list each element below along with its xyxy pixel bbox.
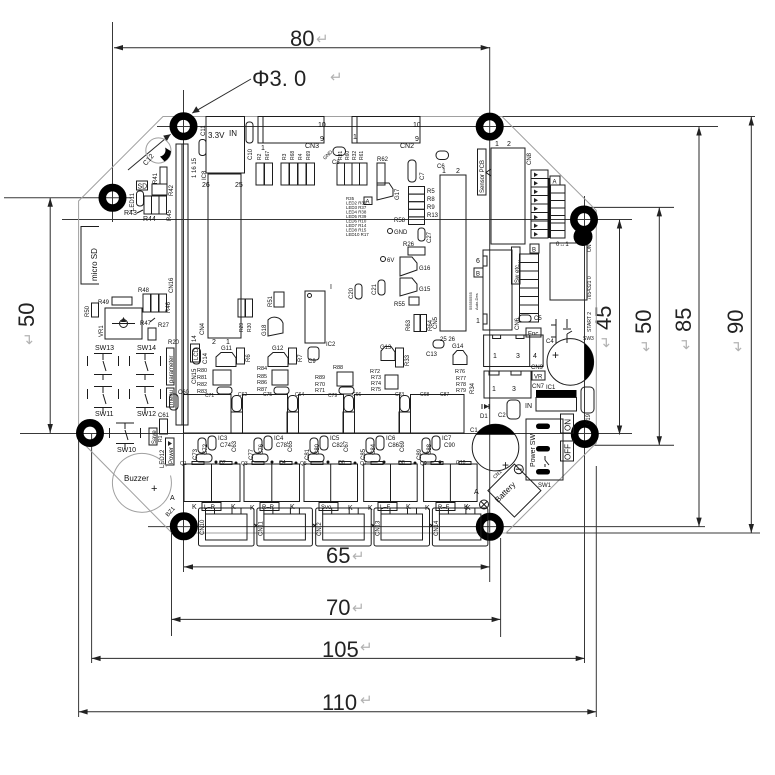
servo connector CN12 bbox=[316, 503, 372, 547]
node A boxed bbox=[364, 197, 372, 206]
servo connector CN13 bbox=[368, 503, 430, 547]
svg-text:↵: ↵ bbox=[360, 692, 373, 709]
svg-text:R67: R67 bbox=[265, 151, 271, 160]
svg-text:K: K bbox=[425, 505, 430, 512]
trimmer VR boxed bbox=[532, 371, 545, 381]
svg-text:C61: C61 bbox=[158, 413, 170, 419]
svg-text:IC7: IC7 bbox=[442, 436, 452, 442]
node A boxed right bbox=[550, 176, 560, 186]
svg-text:Buzzer: Buzzer bbox=[124, 474, 149, 483]
svg-text:R13: R13 bbox=[427, 213, 439, 219]
svg-text:VR1: VR1 bbox=[99, 325, 105, 337]
svg-text:C78: C78 bbox=[276, 443, 288, 449]
svg-text:R62: R62 bbox=[377, 157, 389, 163]
construction line through bottom holes bbox=[148, 526, 705, 528]
svg-text:G11: G11 bbox=[221, 346, 233, 352]
svg-text:R55: R55 bbox=[394, 302, 406, 308]
resistor R62 bbox=[377, 157, 389, 185]
svg-text:2: 2 bbox=[212, 339, 216, 346]
svg-text:R82: R82 bbox=[197, 382, 207, 388]
label ON boxed bbox=[561, 414, 574, 433]
svg-text:R31: R31 bbox=[338, 151, 344, 160]
resistor pair R29 R30 bbox=[238, 299, 253, 332]
svg-text:Q6: Q6 bbox=[338, 460, 345, 466]
svg-text:3.3V: 3.3V bbox=[208, 131, 225, 140]
svg-text:10: 10 bbox=[413, 122, 421, 129]
connector CN5 bbox=[433, 168, 466, 343]
svg-text:R5: R5 bbox=[427, 189, 435, 195]
svg-text:C2: C2 bbox=[498, 413, 506, 419]
svg-text:CN14: CN14 bbox=[434, 520, 440, 536]
svg-text:G18: G18 bbox=[262, 324, 268, 336]
driver box row 5 bbox=[411, 395, 465, 434]
svg-text:C4: C4 bbox=[546, 339, 554, 345]
svg-text:1: 1 bbox=[493, 353, 497, 360]
extension vertical PCB left edge bbox=[78, 433, 80, 717]
svg-text:C10: C10 bbox=[248, 148, 254, 160]
svg-text:CN3: CN3 bbox=[305, 143, 319, 150]
svg-text:7654321 0: 7654321 0 bbox=[587, 276, 593, 300]
svg-text:CN5: CN5 bbox=[433, 316, 439, 329]
svg-text:14: 14 bbox=[192, 335, 198, 342]
svg-text:R1: R1 bbox=[158, 435, 164, 442]
svg-text:R68: R68 bbox=[290, 151, 296, 160]
svg-text:80: 80 bbox=[290, 26, 314, 51]
svg-text:110: 110 bbox=[322, 690, 357, 715]
resistor stack R89 R70 R71 bbox=[315, 365, 354, 399]
svg-text:3: 3 bbox=[512, 386, 516, 393]
svg-text:SW1: SW1 bbox=[538, 483, 552, 489]
svg-text:↵: ↵ bbox=[598, 335, 615, 348]
svg-text:C86: C86 bbox=[388, 443, 400, 449]
svg-text:CN13: CN13 bbox=[376, 520, 382, 536]
resistor R48 group bbox=[138, 288, 172, 313]
svg-text:6: 6 bbox=[476, 258, 480, 265]
svg-text:R3: R3 bbox=[282, 153, 288, 160]
svg-text:C13: C13 bbox=[426, 352, 438, 358]
extension vertical right holes bbox=[584, 196, 586, 663]
svg-text:R34: R34 bbox=[470, 382, 476, 394]
svg-text:C9: C9 bbox=[308, 359, 316, 365]
dimension 65 bottom bbox=[184, 543, 490, 570]
capacitor C7 bbox=[408, 160, 426, 182]
svg-text:C67: C67 bbox=[344, 440, 350, 452]
capacitor C10 bbox=[246, 122, 254, 160]
resistor R43 group bbox=[124, 196, 167, 217]
label OFF boxed bbox=[561, 441, 574, 461]
svg-text:1: 1 bbox=[353, 134, 357, 141]
svg-text:C71: C71 bbox=[205, 393, 214, 399]
node B boxed bbox=[530, 244, 539, 254]
dimension 85 right bbox=[671, 127, 702, 527]
svg-text:CN10: CN10 bbox=[200, 519, 206, 535]
button label Save bbox=[149, 428, 158, 445]
transistor pair Q1 Q2 bbox=[184, 460, 240, 502]
dimension 50 right bbox=[631, 207, 662, 445]
connector CN9 bbox=[484, 335, 544, 371]
svg-text:R33: R33 bbox=[405, 354, 411, 366]
svg-text:C90: C90 bbox=[444, 443, 456, 449]
svg-text:SW12: SW12 bbox=[137, 411, 156, 418]
svg-text:C79: C79 bbox=[328, 393, 337, 399]
svg-text:IC4: IC4 bbox=[274, 436, 284, 442]
connector CN15 (LCD) bbox=[176, 144, 206, 425]
svg-text:9: 9 bbox=[415, 136, 419, 143]
svg-text:START 2: START 2 bbox=[587, 312, 593, 332]
regulator IC8 3.3V bbox=[202, 117, 245, 181]
svg-text:Φ3. 0: Φ3. 0 bbox=[252, 66, 306, 91]
switch SW14 bbox=[130, 345, 161, 380]
svg-text:25: 25 bbox=[235, 182, 243, 189]
svg-text:LED10 R17: LED10 R17 bbox=[346, 232, 369, 237]
dimension 80 top bbox=[114, 26, 490, 51]
svg-text:R88: R88 bbox=[333, 365, 343, 371]
svg-text:CN16: CN16 bbox=[169, 277, 175, 293]
svg-text:C5: C5 bbox=[534, 316, 542, 322]
capacitor C11 bbox=[199, 125, 207, 156]
label Sw etc bbox=[512, 247, 522, 284]
svg-text:↵: ↵ bbox=[316, 31, 329, 48]
transistor G17 bbox=[377, 183, 401, 200]
svg-text:G10: G10 bbox=[456, 460, 466, 466]
construction line horizontal through top holes bbox=[157, 126, 718, 128]
svg-text:↵: ↵ bbox=[638, 339, 655, 352]
svg-text:SW13: SW13 bbox=[95, 345, 114, 352]
svg-text:R61: R61 bbox=[359, 151, 365, 160]
dimension leader PHI 3.0 bbox=[128, 66, 343, 170]
mounting hole bottom-right bbox=[480, 517, 500, 537]
svg-text:OFF: OFF bbox=[564, 444, 573, 460]
resistor R27 bbox=[148, 323, 170, 340]
IC1 bbox=[525, 385, 577, 411]
svg-text:R51: R51 bbox=[268, 295, 274, 307]
dimension 50 left bbox=[14, 198, 53, 433]
IC2 bbox=[305, 284, 336, 348]
svg-text:G16: G16 bbox=[419, 266, 431, 272]
svg-text:R84: R84 bbox=[257, 366, 267, 372]
svg-text:R49: R49 bbox=[98, 300, 110, 306]
resistor column R35-R17 labels bbox=[346, 196, 369, 237]
svg-text:45: 45 bbox=[591, 306, 616, 330]
svg-text:R86: R86 bbox=[257, 380, 267, 386]
capacitor cluster IC4 C76 C77 C78 C65 bbox=[249, 436, 294, 464]
svg-text:R45: R45 bbox=[167, 209, 173, 221]
connector CN7 bbox=[484, 371, 545, 398]
svg-text:R76: R76 bbox=[455, 369, 465, 375]
svg-text:↵: ↵ bbox=[352, 600, 365, 617]
extension vertical left column holes bbox=[183, 90, 185, 572]
capacitor C5 bbox=[519, 315, 542, 322]
transistor G11 with resistor R6 bbox=[216, 346, 252, 367]
junction capacitor 3 bbox=[343, 396, 355, 434]
svg-text:R8: R8 bbox=[427, 197, 435, 203]
driver box row 2 bbox=[243, 395, 288, 434]
svg-text:K: K bbox=[368, 505, 373, 512]
servo connector CN14 bbox=[425, 503, 488, 547]
svg-text:B: B bbox=[476, 272, 480, 278]
svg-text:R48: R48 bbox=[138, 288, 150, 294]
svg-text:R41: R41 bbox=[153, 172, 159, 184]
svg-text:B: B bbox=[532, 248, 536, 254]
svg-text:1: 1 bbox=[492, 386, 496, 393]
resistor stack R72-R75 bbox=[352, 369, 404, 398]
svg-text:K: K bbox=[192, 504, 197, 511]
switch SW13 bbox=[88, 345, 119, 380]
svg-text:Q2: Q2 bbox=[219, 460, 226, 466]
svg-text:85: 85 bbox=[671, 308, 696, 332]
svg-text:2: 2 bbox=[507, 141, 511, 148]
svg-text:IN: IN bbox=[525, 403, 532, 410]
connector CN6 bbox=[476, 250, 521, 330]
svg-text:C27: C27 bbox=[427, 231, 433, 243]
driver box row 4 bbox=[355, 395, 400, 434]
svg-text:↵: ↵ bbox=[678, 337, 695, 350]
svg-text:CN 2: CN 2 bbox=[317, 522, 323, 536]
svg-text:C65: C65 bbox=[288, 440, 294, 452]
node GND circle bbox=[388, 229, 409, 237]
transistor pair Q3 Q4 bbox=[241, 460, 300, 502]
svg-text:R30: R30 bbox=[247, 323, 253, 332]
capacitor C12 bbox=[142, 138, 171, 167]
svg-text:R32: R32 bbox=[352, 151, 358, 160]
wire junction marks between connectors bbox=[255, 524, 434, 527]
svg-text:SW3: SW3 bbox=[583, 336, 594, 342]
svg-text:CN9: CN9 bbox=[531, 365, 544, 371]
resistor R47 bbox=[140, 318, 155, 327]
extension vertical right of CN14 bbox=[500, 538, 502, 637]
svg-text:G15: G15 bbox=[419, 287, 431, 293]
capacitor C14 bbox=[193, 348, 210, 364]
svg-text:R43: R43 bbox=[124, 210, 137, 217]
transistor pair Q7 Q8 bbox=[360, 460, 417, 502]
resistor pair R63 R64 bbox=[406, 315, 434, 332]
mounting hole top-left bbox=[173, 116, 193, 136]
svg-text:R60: R60 bbox=[345, 151, 351, 160]
capacitor cluster IC7 C88 C89 C90 bbox=[417, 436, 456, 464]
svg-text:Power SW: Power SW bbox=[530, 434, 537, 467]
svg-text:1: 1 bbox=[442, 168, 446, 175]
svg-text:IC5: IC5 bbox=[330, 436, 340, 442]
svg-text:micro SD: micro SD bbox=[90, 248, 99, 281]
svg-text:↵: ↵ bbox=[730, 339, 747, 352]
extension vertical left upper hole bbox=[112, 22, 114, 222]
battery connector CN1 bbox=[480, 464, 541, 517]
extension vertical bottom left corner bbox=[171, 533, 173, 636]
mounting hole right-upper bbox=[574, 209, 594, 229]
micro SD socket bbox=[81, 227, 99, 285]
svg-text:Sensor PCB: Sensor PCB bbox=[480, 160, 486, 193]
capacitor C2 bbox=[498, 400, 520, 419]
construction stub right upper bbox=[590, 206, 674, 208]
resistor stack R84-R87 bbox=[257, 366, 304, 398]
resistor R26 bbox=[403, 242, 425, 255]
construction line through left lower hole bbox=[20, 433, 632, 435]
svg-text:Auto-Des: Auto-Des bbox=[474, 293, 479, 310]
svg-text:9: 9 bbox=[320, 136, 324, 143]
switch SW11 bbox=[88, 387, 119, 419]
node 6V bbox=[381, 257, 395, 265]
svg-text:1 16 15: 1 16 15 bbox=[192, 157, 198, 178]
LED11 bbox=[130, 191, 144, 211]
driver box row 3 bbox=[299, 395, 344, 434]
svg-text:+: + bbox=[552, 348, 559, 362]
svg-text:LED11: LED11 bbox=[130, 192, 136, 211]
rotary switch START bbox=[550, 227, 594, 342]
svg-text:26: 26 bbox=[202, 182, 210, 189]
SD label bbox=[137, 181, 148, 191]
svg-text:A: A bbox=[474, 489, 479, 496]
svg-text:R6: R6 bbox=[246, 354, 252, 362]
svg-text:R89: R89 bbox=[315, 375, 325, 381]
switch symbol SW2 bbox=[551, 319, 572, 343]
capacitor cluster IC6 C84 C85 C86 C69 bbox=[361, 436, 406, 464]
svg-text:Q9: Q9 bbox=[420, 461, 427, 467]
svg-text:2: 2 bbox=[456, 168, 460, 175]
dimension 70 bottom bbox=[172, 595, 501, 622]
svg-text:4: 4 bbox=[533, 353, 537, 360]
diode D1 bbox=[480, 404, 489, 420]
label Auto-Des column bbox=[468, 291, 479, 310]
junction capacitor 2 bbox=[287, 396, 299, 434]
capacitor C61 bbox=[158, 413, 170, 434]
connector CN8 bbox=[486, 141, 533, 244]
svg-text:CN2: CN2 bbox=[400, 143, 414, 150]
svg-text:SW10: SW10 bbox=[117, 447, 136, 454]
resistor R49 bbox=[98, 297, 132, 306]
svg-text:A: A bbox=[553, 180, 557, 186]
svg-text:R50: R50 bbox=[85, 305, 91, 317]
svg-text:105: 105 bbox=[322, 637, 359, 662]
svg-text:CN7: CN7 bbox=[532, 384, 545, 390]
connector CN3 bbox=[258, 117, 326, 153]
node B boxed 2 bbox=[474, 268, 483, 278]
svg-text:C74: C74 bbox=[220, 443, 232, 449]
capacitor C6 bbox=[436, 151, 449, 170]
capacitor C21 bbox=[372, 280, 385, 295]
connector CN2 bbox=[352, 117, 421, 151]
svg-text:GND: GND bbox=[394, 230, 408, 236]
construction line through right upper hole bbox=[62, 219, 632, 221]
svg-text:R46: R46 bbox=[166, 301, 172, 313]
transistor G12 with resistor R7 bbox=[268, 346, 304, 367]
capacitor C27 bbox=[418, 228, 433, 243]
buzzer BZ1 bbox=[112, 453, 177, 518]
svg-text:↵: ↵ bbox=[21, 332, 38, 345]
construction stub right lower bbox=[594, 444, 674, 446]
label Enc bbox=[526, 328, 541, 338]
svg-text:Q3: Q3 bbox=[241, 461, 248, 467]
svg-text:CN11: CN11 bbox=[258, 520, 264, 536]
svg-text:R69: R69 bbox=[306, 151, 312, 160]
svg-text:CN6: CN6 bbox=[515, 317, 521, 330]
power switch SW1 bbox=[526, 419, 563, 489]
svg-text:R9: R9 bbox=[427, 205, 435, 211]
svg-text:↵: ↵ bbox=[360, 639, 373, 656]
extension vertical hole H3 bbox=[91, 433, 93, 663]
transistor G13 with resistor R33 bbox=[380, 345, 411, 367]
svg-text:C63: C63 bbox=[232, 440, 238, 452]
svg-text:C20: C20 bbox=[349, 287, 355, 299]
svg-text:C19: C19 bbox=[586, 413, 592, 425]
svg-text:SW11: SW11 bbox=[95, 411, 114, 418]
dimension 45 right bbox=[591, 220, 622, 435]
svg-text:CN4: CN4 bbox=[200, 322, 206, 335]
svg-text:CN8: CN8 bbox=[527, 152, 533, 165]
svg-text:90: 90 bbox=[723, 310, 748, 334]
svg-text:C82: C82 bbox=[332, 443, 344, 449]
svg-text:R71: R71 bbox=[315, 388, 325, 394]
svg-text:G14: G14 bbox=[452, 344, 464, 350]
capacitor cluster IC5 C80 C81 C82 C67 bbox=[305, 436, 350, 464]
mounting hole bottom-left bbox=[174, 516, 194, 536]
svg-text:1: 1 bbox=[476, 318, 480, 325]
capacitor C4 electrolytic bbox=[546, 339, 594, 386]
svg-text:R58: R58 bbox=[394, 218, 406, 224]
svg-text:70: 70 bbox=[326, 595, 350, 620]
resistor stack R76-R79 bbox=[420, 369, 476, 398]
svg-text:R20: R20 bbox=[168, 340, 180, 346]
resistor stack R80-R83 bbox=[197, 368, 247, 399]
svg-text:R79: R79 bbox=[456, 388, 466, 394]
svg-text:VR: VR bbox=[534, 375, 543, 381]
capacitor C19 bbox=[581, 387, 594, 425]
mounting hole right-lower bbox=[575, 424, 595, 444]
resistor R41 bbox=[153, 167, 167, 184]
svg-text:R7: R7 bbox=[298, 354, 304, 362]
svg-text:+: + bbox=[151, 483, 157, 495]
construction line top edge extension bbox=[163, 116, 755, 118]
svg-text:R75: R75 bbox=[371, 387, 381, 393]
svg-text:R44: R44 bbox=[143, 216, 156, 223]
resistor group R31 R60 R32 R61 bbox=[337, 151, 367, 185]
svg-text:10: 10 bbox=[318, 122, 326, 129]
extension vertical PCB right edge bbox=[595, 466, 597, 717]
button label Power / LED12 bbox=[160, 438, 175, 468]
svg-text:1: 1 bbox=[226, 339, 230, 346]
transistor G14 bbox=[452, 344, 467, 365]
svg-text:C21: C21 bbox=[372, 283, 378, 295]
switch SW12 bbox=[130, 387, 161, 419]
junction capacitor 1 bbox=[231, 396, 243, 434]
DIP switch block B bbox=[520, 254, 539, 322]
svg-text:1: 1 bbox=[495, 141, 499, 148]
svg-text:3: 3 bbox=[516, 353, 520, 360]
transistor pair Q5 Q6 bbox=[300, 460, 358, 502]
svg-text:G17: G17 bbox=[395, 188, 401, 200]
svg-text:R29: R29 bbox=[239, 323, 245, 332]
extension vertical right top hole bbox=[489, 47, 491, 582]
mounting hole left-upper bbox=[102, 188, 122, 208]
svg-text:R4: R4 bbox=[298, 153, 304, 160]
dimension 110 bottom bbox=[79, 690, 597, 715]
resistor R50 bbox=[85, 303, 99, 317]
mounting hole left-lower bbox=[80, 423, 100, 443]
svg-text:parameter: parameter bbox=[169, 356, 175, 383]
svg-text:C7: C7 bbox=[420, 172, 426, 180]
servo connector CN11 bbox=[250, 503, 312, 547]
resistor ladder R5 R8 R9 R13 bbox=[394, 187, 439, 225]
switch SW10 bbox=[110, 423, 141, 454]
svg-text:Power: Power bbox=[169, 447, 175, 464]
svg-text:50: 50 bbox=[631, 310, 656, 334]
construction line bottom edge extension bbox=[506, 532, 760, 534]
svg-text:50: 50 bbox=[14, 303, 39, 327]
svg-text:6V: 6V bbox=[387, 258, 394, 264]
transistor G18 bbox=[262, 317, 283, 336]
capacitor C13 bbox=[426, 340, 444, 358]
svg-text:Q7: Q7 bbox=[360, 461, 367, 467]
Sensor PCB label bbox=[478, 149, 487, 195]
